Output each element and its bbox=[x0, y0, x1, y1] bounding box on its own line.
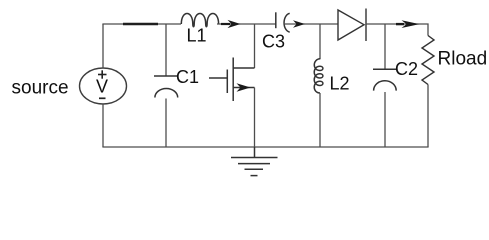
arrowhead after C3 bbox=[293, 20, 305, 28]
svg-text:L1: L1 bbox=[187, 25, 207, 45]
capacitor C2 bbox=[373, 69, 397, 90]
MOSFET Q1 bbox=[209, 58, 255, 102]
resistor Rload bbox=[422, 36, 434, 85]
wire current mark (thick segment) bbox=[123, 23, 158, 26]
arrowhead at output bbox=[396, 20, 420, 28]
svg-text:source: source bbox=[12, 78, 69, 99]
svg-text:Rload: Rload bbox=[438, 49, 488, 70]
svg-text:V: V bbox=[96, 77, 108, 97]
ground bbox=[231, 147, 278, 176]
wire source bottom bbox=[102, 104, 104, 147]
arrowhead after L1 bbox=[221, 20, 241, 28]
wire C2 bottom bbox=[384, 92, 386, 147]
capacitor C3 bbox=[276, 12, 290, 32]
svg-text:C1: C1 bbox=[176, 67, 199, 87]
wire top rail source to L1 bbox=[102, 23, 181, 25]
wire MOSFET source down bbox=[254, 88, 256, 148]
wire C1 bottom bbox=[165, 99, 167, 148]
wire Rload bottom bbox=[427, 85, 429, 148]
wire C2 to top rail bbox=[384, 24, 386, 69]
inductor L1 bbox=[181, 14, 218, 27]
wire C3 to diode bbox=[285, 23, 338, 25]
diode D1 bbox=[338, 9, 366, 42]
wire source top to rail bbox=[102, 24, 104, 68]
wire bottom rail bbox=[102, 146, 428, 148]
wire MOSFET drain junction to top rail bbox=[254, 24, 256, 68]
inductor L2 bbox=[314, 59, 323, 93]
wire top rail L1 to C3 bbox=[217, 23, 276, 25]
wire diode to load corner bbox=[366, 24, 428, 36]
svg-text:C2: C2 bbox=[395, 59, 418, 79]
capacitor C1 bbox=[154, 76, 179, 98]
wire L2 to top rail bbox=[319, 24, 321, 59]
wire C1 to top rail bbox=[165, 24, 167, 76]
voltage source V bbox=[80, 68, 127, 104]
svg-text:C3: C3 bbox=[262, 32, 285, 52]
svg-text:L2: L2 bbox=[330, 74, 350, 94]
wire L2 bottom bbox=[319, 93, 321, 147]
